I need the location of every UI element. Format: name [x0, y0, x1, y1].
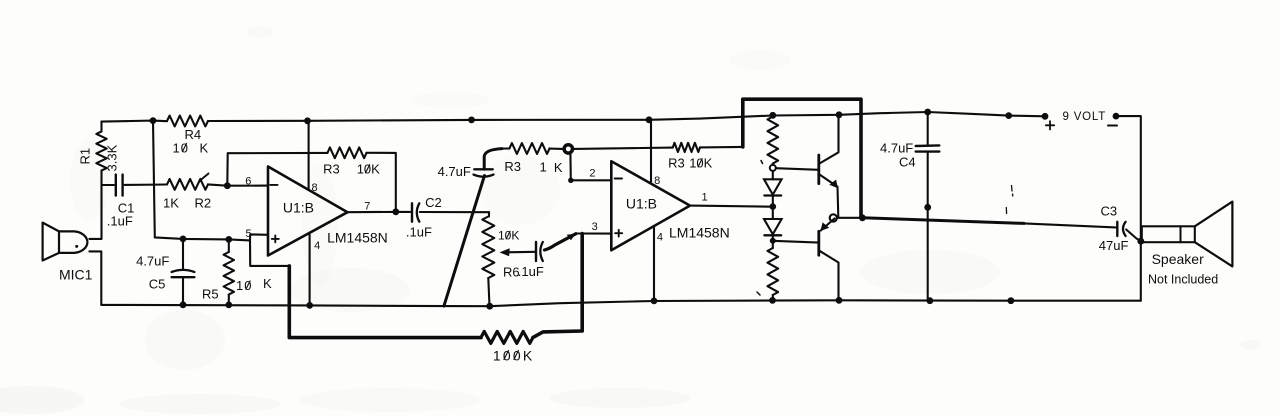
svg-text:1: 1	[540, 159, 547, 174]
svg-text:LM1458N: LM1458N	[669, 225, 730, 241]
svg-text:K: K	[200, 140, 209, 155]
svg-text:R2: R2	[195, 195, 212, 210]
svg-text:7: 7	[364, 200, 370, 212]
svg-text:8: 8	[654, 175, 660, 187]
svg-text:6: 6	[245, 175, 251, 187]
svg-text:2: 2	[589, 167, 595, 179]
svg-text:3.3K: 3.3K	[105, 144, 120, 171]
svg-text:4: 4	[314, 240, 320, 252]
svg-text:C5: C5	[149, 276, 166, 291]
svg-text:Speaker: Speaker	[1152, 251, 1204, 267]
svg-text:.1uF: .1uF	[406, 225, 432, 240]
svg-text:K: K	[554, 160, 563, 175]
svg-text:5: 5	[246, 228, 252, 240]
svg-text:4: 4	[657, 232, 663, 244]
svg-text:10: 10	[236, 278, 252, 293]
svg-text:C2: C2	[425, 195, 442, 210]
svg-text:R3: R3	[668, 156, 685, 171]
svg-text:10K: 10K	[689, 156, 712, 171]
svg-text:Not Included: Not Included	[1148, 273, 1218, 287]
svg-text:R1: R1	[77, 148, 92, 165]
svg-text:1K: 1K	[163, 195, 179, 210]
svg-text:4.7uF: 4.7uF	[880, 140, 913, 155]
svg-text:1: 1	[702, 192, 708, 204]
svg-text:K: K	[263, 276, 272, 291]
svg-text:10K: 10K	[498, 229, 519, 243]
svg-text:R3: R3	[504, 159, 521, 174]
svg-text:C4: C4	[899, 155, 916, 170]
svg-text:LM1458N: LM1458N	[327, 230, 388, 246]
svg-text:.1uF: .1uF	[107, 214, 133, 229]
svg-text:10K: 10K	[357, 162, 380, 177]
svg-text:9 VOLT: 9 VOLT	[1063, 111, 1107, 123]
svg-text:U1:B: U1:B	[283, 200, 314, 216]
svg-text:R5: R5	[202, 286, 219, 301]
svg-text:R3: R3	[323, 162, 340, 177]
svg-text:47uF: 47uF	[1099, 238, 1129, 253]
svg-text:100K: 100K	[493, 347, 535, 363]
svg-text:4.7uF: 4.7uF	[136, 254, 169, 269]
svg-text:U1:B: U1:B	[626, 195, 657, 211]
svg-text:3: 3	[592, 221, 598, 233]
svg-text:.1uF: .1uF	[518, 264, 544, 279]
svg-text:MIC1: MIC1	[59, 267, 93, 283]
svg-text:C3: C3	[1101, 203, 1118, 218]
svg-text:4.7uF: 4.7uF	[438, 164, 471, 179]
svg-text:8: 8	[312, 182, 318, 194]
svg-text:10: 10	[173, 140, 189, 155]
